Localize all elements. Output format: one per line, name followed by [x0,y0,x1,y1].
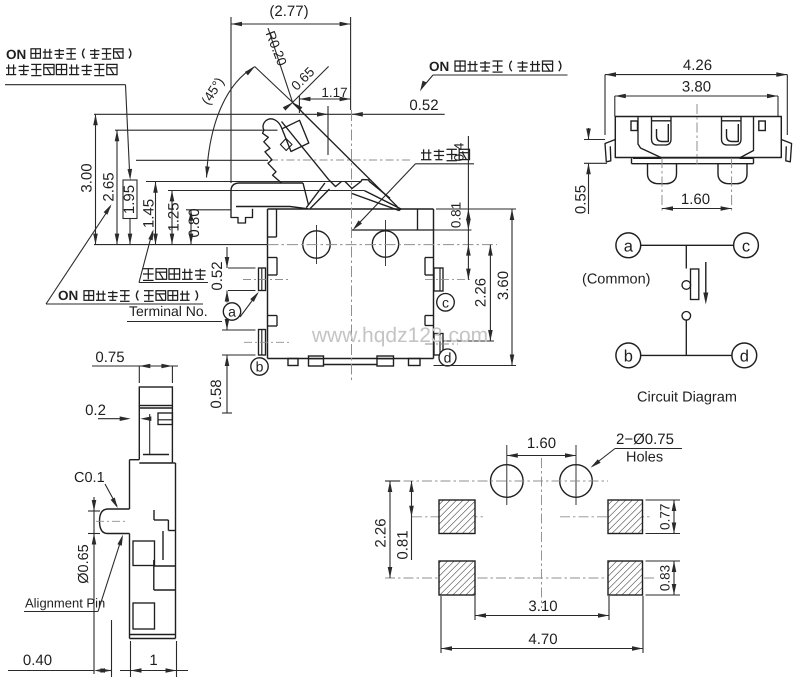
svg-text:2.26: 2.26 [473,278,490,307]
wire b-d [641,354,732,356]
lever seat bump [361,180,390,199]
internal step line right [352,229,434,231]
pad top-left [439,500,475,534]
svg-text:1.60: 1.60 [527,435,556,452]
lever square hole [280,139,292,151]
dimension 0.52 (pin a height) [228,267,256,269]
extension line 1.25 [168,190,364,192]
left metal flange [605,140,615,162]
inner cavity [638,117,754,159]
svg-text:(Common): (Common) [582,272,650,288]
svg-text:Alignment Pin: Alignment Pin [25,596,105,611]
internal step line left [276,209,278,237]
dimension 4.26 [604,75,606,135]
leader R0.20 [268,28,293,102]
svg-text:d: d [740,347,749,365]
dimension 3.10 [474,596,476,620]
center line of bottom view [696,104,698,164]
terminal b [616,343,641,368]
extension line 2.77 right / rotation centerline top [350,17,352,110]
dimension 1.25 [171,190,173,244]
svg-text:3.60: 3.60 [495,271,512,300]
side view body outline [138,406,140,460]
bottom view outer frame [615,117,781,158]
dimension 4.70 [440,596,442,653]
contact pad lower [133,603,155,629]
lever free-position line (dashed) [270,159,410,161]
svg-text:3.10: 3.10 [528,598,557,615]
mounting peg right [718,164,747,184]
base reference line (seating plane) [94,244,268,246]
lever lower spike [306,183,325,208]
terminal d [732,343,757,368]
left edge notch upper [268,257,277,259]
extension line 1.45 / lever seat level [146,181,361,183]
pin b centerline [244,341,291,343]
extension line 3.00 top / 0.52 dim line [94,113,445,115]
svg-text:b: b [624,347,633,365]
svg-text:0.75: 0.75 [95,349,124,366]
terminal pin d (right lower) [434,334,443,356]
svg-text:0.83: 0.83 [658,565,673,591]
svg-text:ON: ON [6,47,26,62]
wire down to b-d [685,320,687,355]
right edge notch upper [425,257,434,259]
extension line 2.65 top [115,129,278,131]
dimension 3.60 [511,209,513,366]
svg-text:2−Ø0.75: 2−Ø0.75 [616,431,674,448]
right inner steps [153,510,155,520]
lever tip blade [352,191,401,211]
label: rotation center (xuanzhuan zhongxin) [421,149,431,159]
pad top-right [608,500,643,534]
vertical centerline of pattern [541,458,543,608]
terminal mark b [251,358,268,375]
svg-text:C0.1: C0.1 [74,470,105,486]
dimension 2.26 (main view) [489,245,491,341]
contact circle right [372,231,398,257]
svg-text:4.70: 4.70 [528,631,557,648]
(45deg) arc dimension [207,67,255,178]
svg-text:0.40: 0.40 [23,652,52,669]
pad bottom-right [608,561,643,595]
dimension 2.65 [116,130,118,244]
wire a-c [641,244,734,246]
dimension 0.4 and 0.81 (right of lever) [467,136,469,280]
svg-text:(2.77): (2.77) [269,3,308,20]
extension: body top to right [436,208,516,210]
terminal mark a [223,303,240,320]
extension tick [149,414,151,455]
extension line 1.95 top [136,159,268,161]
svg-text:d: d [444,350,452,366]
svg-text:1.25: 1.25 [166,202,183,231]
terminal c [734,233,759,258]
alignment pin bump [100,509,130,534]
actuation arrow [705,262,707,296]
dimension 0.75 [92,365,178,367]
terminal mark d [439,349,456,366]
internal lines upper body [143,454,169,456]
svg-text:2.65: 2.65 [101,172,118,201]
right edge notch lower [425,315,434,317]
spring contact clip [722,117,742,146]
dimension 0.83 [646,560,681,562]
contact circle left [303,231,330,258]
lever bend V2 [345,182,361,189]
svg-text:b: b [256,359,264,375]
bottom double line [130,634,176,636]
left edge notch lower [268,315,277,317]
movable contact circle top [682,281,691,290]
actuator rectangle [691,269,699,300]
peg centerline left [661,158,663,213]
left side tab [631,121,638,131]
svg-text:0.58: 0.58 [208,379,225,408]
svg-text:1.17: 1.17 [321,85,347,100]
dimension 1.95 (boxed, force measurement position) [123,180,137,219]
hole left [491,465,524,498]
hole centerlines vertical [506,445,508,505]
dimension 1.60 (pegs) [662,208,732,210]
horizontal centerline through holes [385,480,608,482]
extension: internal line to right [434,229,472,231]
terminal pin c (right upper) [434,268,443,291]
svg-text:ON: ON [58,288,78,303]
svg-text:0.2: 0.2 [85,402,106,419]
svg-text:0.81: 0.81 [449,202,464,228]
svg-text:4.26: 4.26 [683,57,712,74]
contact pad upper [133,541,155,566]
lever arm edge 2 [282,122,329,180]
svg-text:1.95: 1.95 [121,185,138,214]
svg-text:1.45: 1.45 [141,199,158,228]
svg-text:c: c [442,294,449,310]
cap foot notch [231,207,253,224]
side view right edge [171,406,173,463]
svg-text:0.4: 0.4 [452,142,467,161]
lever arm edge 1 [293,103,398,207]
svg-text:0.81: 0.81 [395,530,412,559]
svg-text:0.52: 0.52 [409,97,438,114]
svg-text:a: a [228,304,236,320]
terminal a [616,233,641,258]
extension: bottom line to right [434,365,517,367]
leader 0.65 (45-deg) [293,66,329,102]
svg-text:0.80: 0.80 [186,208,203,237]
svg-text:1.60: 1.60 [681,191,710,208]
terminal mark c [437,294,455,312]
pad centerline bottom row [385,577,655,579]
bottom shelf lines [633,157,662,159]
svg-text:Ø0.65: Ø0.65 [76,544,92,584]
svg-text:3.80: 3.80 [682,79,711,96]
svg-text:2.26: 2.26 [373,518,390,547]
tick 1.17 left [298,96,300,113]
dimension 0.58 (pin b height) [222,329,256,331]
bottom feet [288,359,298,366]
svg-text:0.77: 0.77 [658,504,673,530]
dimension 2.26 (pcb) [385,480,400,482]
dimension 0.81 (pcb) [411,481,413,560]
svg-text:0.55: 0.55 [573,185,590,214]
svg-text:ON: ON [429,59,449,74]
pad bottom-left [439,561,475,595]
mounting peg left [648,164,677,184]
pin centerline [96,520,127,522]
right metal flange [781,140,791,162]
dimension 1.45 [155,182,157,245]
dimension 0.55 [584,139,605,141]
svg-text:Terminal No.: Terminal No. [129,303,208,319]
peg centerline right [731,158,733,213]
pin a centerline [243,279,291,281]
lever top section [139,387,172,406]
svg-text:c: c [742,237,750,255]
pin d centerline [425,343,458,345]
horizontal centerline through circles [268,244,498,246]
tick 0.52 left [327,106,329,155]
lever bracket plate [282,120,309,151]
right side tab [759,121,766,131]
dimension 3.00 [95,114,97,244]
contact circle bottom [682,312,691,321]
pin c centerline extended [425,279,472,281]
extension for 2.26 bottom [444,340,494,342]
svg-text:a: a [624,237,634,255]
dimension 0.2 [98,418,127,420]
dimension 0.80 [190,210,192,245]
extension line 2.77 left / cap edge extended [230,17,232,183]
wire down from a-c [685,245,687,268]
terminal pin b (left lower) [259,330,266,356]
45 degree reference line [255,67,293,103]
dimension 0.40 [8,670,94,672]
dimension 0.77 [646,499,681,501]
dimension 1 [120,670,188,672]
extension line 0.80 [186,209,231,211]
lever molded head [263,119,282,183]
terminal pin a (left upper) [259,268,266,291]
lever bend V1 [329,180,342,187]
vertical rotation centerline [351,110,353,380]
dimension dia 0.65 [88,510,100,512]
dimension 1.60 (holes) [507,455,576,457]
label: full stroke position [143,269,154,281]
lever hook side profile [158,413,172,425]
dimension 3.80 [614,96,616,117]
svg-text:www.hqdz123.com: www.hqdz123.com [311,324,488,347]
svg-text:1: 1 [149,652,157,669]
svg-text:3.00: 3.00 [79,163,96,192]
hole right [560,465,593,498]
svg-text:0.52: 0.52 [209,261,226,290]
spring contact clip [652,117,672,146]
svg-text:Circuit Diagram: Circuit Diagram [637,390,737,406]
actuator cap [231,183,303,207]
svg-text:Holes: Holes [626,450,663,466]
right cavity lines [162,531,164,560]
pad centerline top row [412,516,485,518]
switch housing body outline [267,209,269,359]
